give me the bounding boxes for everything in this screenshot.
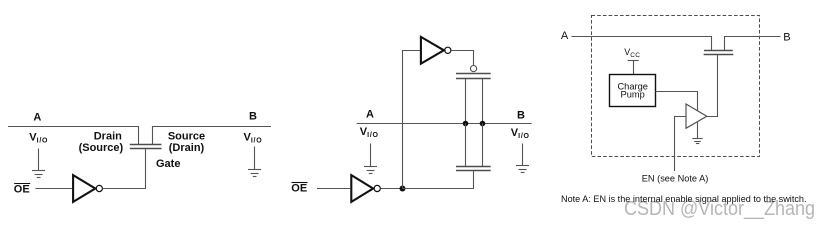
wire U3 output to gate of Q2 xyxy=(451,51,474,66)
wire Q2 drain to bus xyxy=(482,79,484,124)
junction dot left xyxy=(463,121,469,127)
svg-text:OE: OE xyxy=(14,184,30,196)
inverter U2 xyxy=(351,175,373,202)
svg-text:A: A xyxy=(33,112,41,124)
inverter U3 xyxy=(421,37,444,64)
junction dot xyxy=(400,186,406,192)
charge pump U4 xyxy=(610,75,656,107)
wire A-B bus xyxy=(357,123,532,125)
wire Q2 source to bus xyxy=(465,79,467,124)
supply tap VCC xyxy=(628,60,639,62)
svg-text:A: A xyxy=(366,109,374,121)
transistor Q4 xyxy=(704,51,734,55)
transistor Q3 (NMOS) xyxy=(456,167,491,171)
ground (B side) xyxy=(516,144,529,173)
wire VCC to charge pump xyxy=(633,61,635,75)
wire buffer output to Q4 gate xyxy=(707,55,718,117)
wire Q3 gate to node xyxy=(403,171,474,189)
transistor Q1 xyxy=(130,145,162,149)
svg-text:Pump: Pump xyxy=(621,90,645,100)
svg-text:Drain: Drain xyxy=(94,130,122,142)
svg-text:(Source): (Source) xyxy=(79,142,124,154)
wire bus to Q3 source xyxy=(465,124,467,167)
wire bus to Q3 drain xyxy=(482,124,484,167)
wire node up to inverter U3 input xyxy=(403,51,421,189)
buffer U5 xyxy=(686,104,707,128)
ground (A side) xyxy=(364,144,377,174)
svg-text:B: B xyxy=(517,109,525,121)
wire A to Q4 xyxy=(572,37,712,51)
svg-text:B: B xyxy=(783,31,790,43)
wire source to B xyxy=(153,127,272,145)
ground (A side) xyxy=(32,149,45,178)
wire EN to buffer input xyxy=(675,117,687,172)
svg-text:Note A: EN is the internal ena: Note A: EN is the internal enable signal… xyxy=(561,194,807,204)
transistor Q2 (PMOS) xyxy=(456,74,491,79)
inverter U1 xyxy=(73,175,95,202)
wire inverter output to gate of Q1 xyxy=(102,149,145,189)
wire OE to inverter U2 xyxy=(317,188,350,190)
wire U2 output to node xyxy=(380,188,402,190)
wire OE to inverter xyxy=(36,188,73,190)
wire A to drain xyxy=(8,127,139,145)
svg-text:EN (see Note A): EN (see Note A) xyxy=(642,173,709,183)
junction dot right xyxy=(480,121,486,127)
svg-text:Gate: Gate xyxy=(156,158,180,170)
switch boundary (dashed) xyxy=(592,16,760,157)
gate bubble of Q2 xyxy=(470,66,476,72)
svg-text:B: B xyxy=(249,110,257,122)
svg-text:OE: OE xyxy=(291,183,307,195)
svg-text:(Drain): (Drain) xyxy=(169,142,205,154)
wire charge pump to buffer U5 xyxy=(656,92,698,111)
wire Q4 to B xyxy=(725,37,781,51)
svg-text:Source: Source xyxy=(168,130,205,142)
ground (B side) xyxy=(248,147,261,177)
ground (buffer) xyxy=(692,122,702,144)
svg-text:A: A xyxy=(561,30,569,42)
